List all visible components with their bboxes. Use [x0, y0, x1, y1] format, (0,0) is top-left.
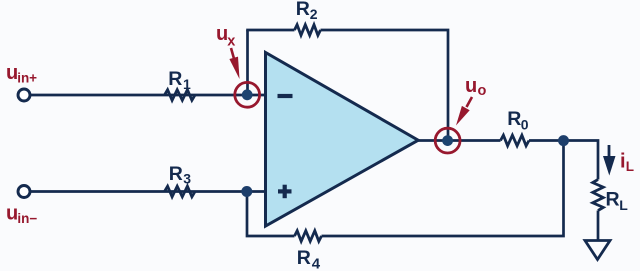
svg-text:R: R: [507, 108, 521, 130]
wire: positive feedback from output node down and left to R4: [322, 141, 564, 237]
svg-text:R: R: [606, 188, 620, 210]
label u_in-: [6, 202, 37, 226]
label u_in+: [6, 62, 37, 86]
node: non-inverting input junction: [241, 186, 252, 197]
svg-text:R: R: [169, 163, 183, 185]
wire: top feedback rail left segment (to R2): [246, 29, 294, 32]
op-amp inverting input minus sign: [278, 94, 293, 98]
svg-text:L: L: [619, 197, 628, 213]
svg-text:1: 1: [183, 76, 191, 92]
wire: R0 to load branch corner: [529, 141, 598, 180]
svg-text:0: 0: [521, 117, 529, 133]
svg-text:2: 2: [310, 6, 318, 22]
node u_o (junction dot): [442, 135, 453, 146]
svg-text:3: 3: [183, 171, 191, 187]
svg-text:x: x: [227, 34, 235, 50]
resistor R4: [295, 231, 322, 271]
wire: feedback riser from node u_x up to top rail: [246, 30, 249, 95]
terminal u_in+: [18, 89, 30, 101]
wire: top feedback rail right segment (R2 to output riser): [321, 30, 449, 141]
svg-text:in−: in−: [17, 211, 37, 226]
wire: RL to ground: [597, 211, 600, 241]
probe marker u_o (red circle, arrow, label): [435, 75, 486, 153]
svg-text:u: u: [465, 75, 477, 97]
wire: u_in- input wire to op-amp non-inverting input: [31, 190, 266, 193]
resistor R2: [295, 0, 321, 35]
resistor R3: [165, 163, 196, 197]
current arrow i_L: [603, 145, 634, 176]
resistor RL: [593, 180, 629, 214]
svg-text:o: o: [478, 83, 487, 99]
wire: op-amp output to R0: [417, 139, 501, 142]
svg-text:in+: in+: [17, 71, 37, 86]
svg-text:4: 4: [312, 255, 321, 271]
svg-text:i: i: [620, 151, 626, 173]
svg-text:R: R: [296, 0, 310, 20]
resistor R1: [165, 68, 196, 100]
svg-text:R: R: [297, 247, 311, 269]
ground: [585, 241, 610, 260]
op-amp: [266, 53, 419, 227]
wire: R4 to non-inverting node riser: [247, 192, 295, 237]
svg-text:L: L: [626, 159, 634, 174]
node: output junction before load: [558, 135, 569, 146]
probe marker u_x (red circle, arrow, label): [216, 23, 260, 107]
terminal u_in-: [18, 186, 30, 198]
svg-text:R: R: [168, 68, 182, 90]
svg-text:u: u: [6, 202, 18, 224]
resistor R0: [501, 108, 530, 146]
op-amp non-inverting input plus sign: [278, 185, 292, 199]
wire: u_in+ input wire to op-amp inverting input: [31, 94, 266, 97]
node u_x (junction dot): [242, 89, 253, 100]
